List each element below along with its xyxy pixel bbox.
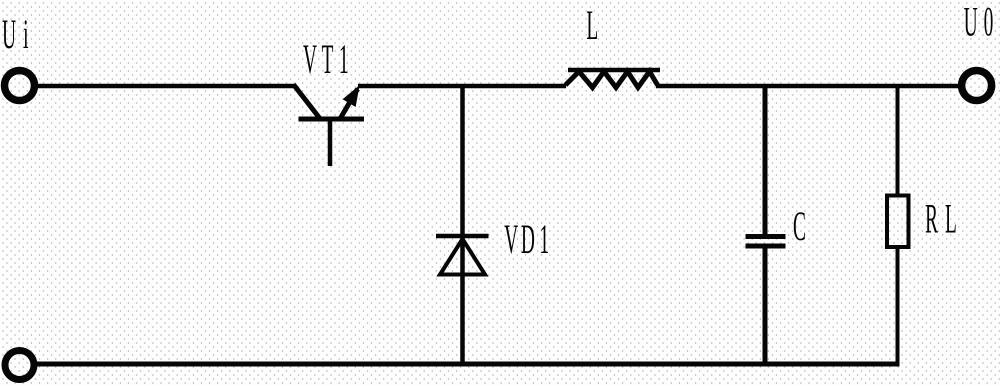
wire: capacitor C branch upper lead [763, 86, 768, 236]
inductor L zigzag winding [566, 72, 658, 88]
wire: resistor RL branch lower lead [896, 247, 900, 364]
transistor VT1 base lead down [328, 119, 333, 166]
terminal Ui (input, top-left circle) [5, 71, 35, 101]
inductor L top bar [568, 68, 660, 73]
terminal U0 (output, top-right circle) [962, 71, 992, 101]
resistor RL body rectangle [887, 196, 909, 248]
label C [794, 212, 805, 240]
transistor VT1 emitter diagonal [294, 85, 320, 119]
terminal bottom-left circle [5, 351, 34, 380]
wire top: inductor L to U0 terminal (C junction x=765, RL junction x=897.5) [656, 84, 960, 89]
wire top: VT1 to inductor L (diode junction at x=462.5) [358, 84, 566, 89]
wire: capacitor C branch lower lead [763, 246, 768, 364]
wire: diode VD1 branch vertical (top wire to bottom rail) [460, 86, 465, 364]
label Ui [2, 20, 28, 48]
capacitor C top plate [746, 234, 786, 239]
label U0 [964, 8, 992, 36]
wire: resistor RL branch upper lead [896, 86, 900, 196]
diode VD1 cathode bar [436, 234, 489, 239]
transistor VT1 base bar [299, 117, 365, 122]
transistor VT1 collector diagonal [341, 89, 358, 118]
diode VD1 triangle (anode, pointing up) [440, 239, 485, 275]
wire top: Ui terminal to VT1 emitter [37, 84, 295, 89]
transistor VT1 collector arrowhead [344, 87, 359, 106]
label L [587, 12, 597, 40]
label VD1 [504, 225, 547, 253]
label VT1 [303, 45, 347, 73]
wire bottom rail [37, 362, 900, 367]
label RL [926, 205, 956, 233]
capacitor C bottom plate [746, 244, 786, 249]
